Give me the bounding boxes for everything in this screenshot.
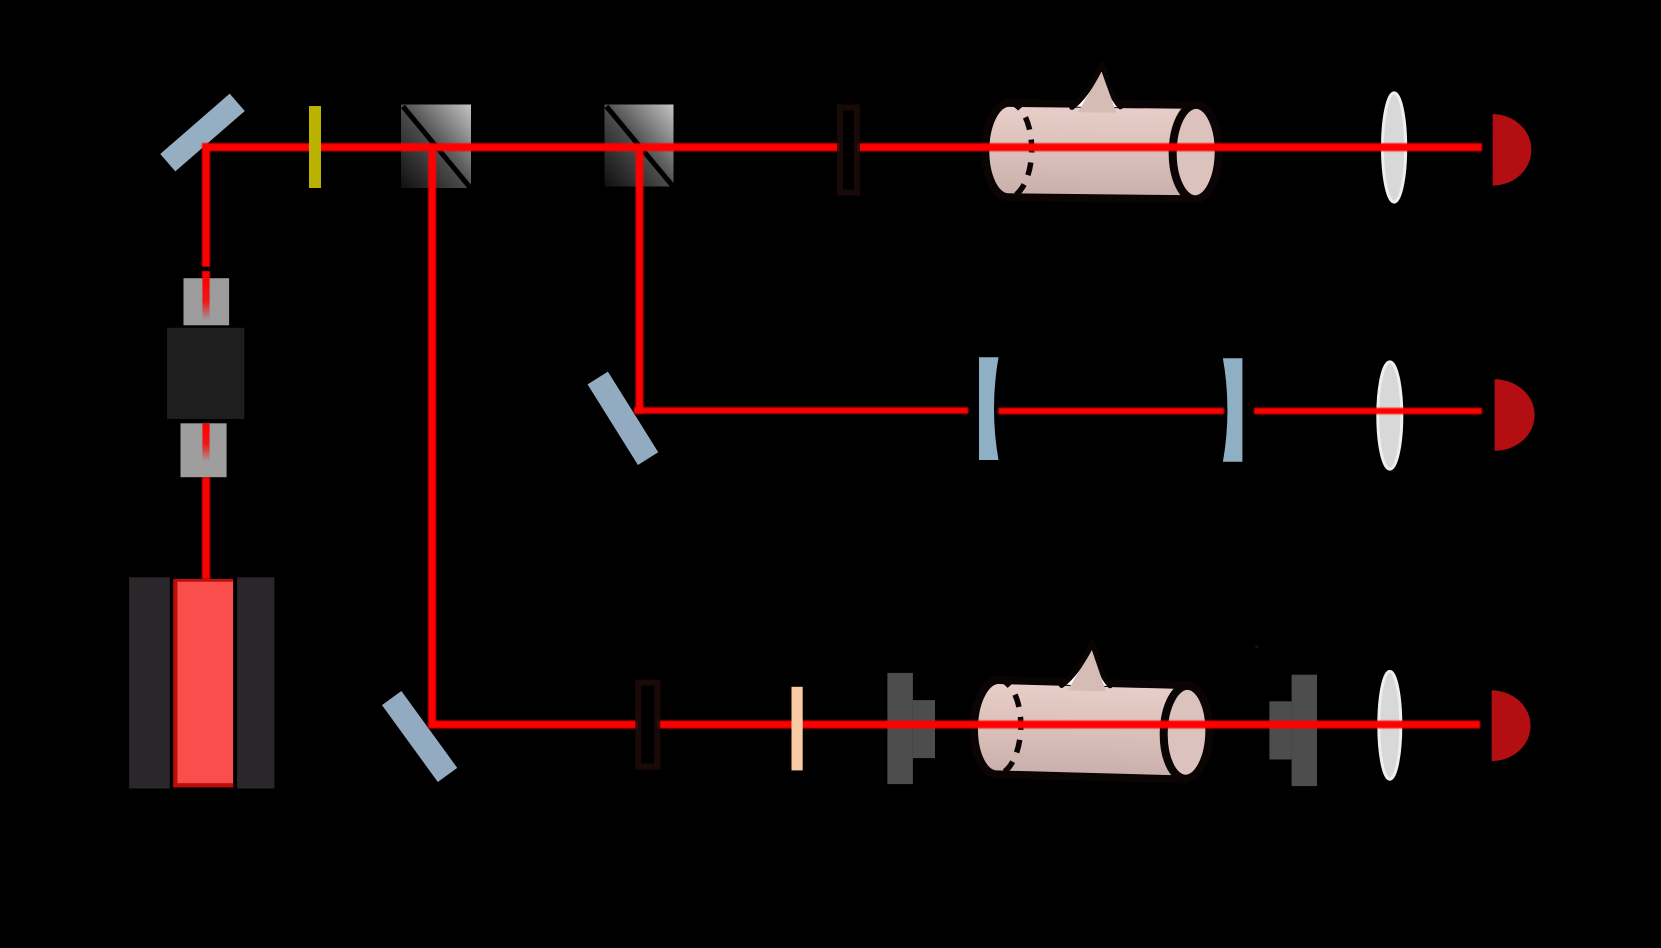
cavity mirror CM2 (right, concave left face) [1223,358,1243,462]
stray dark dot [1255,645,1258,648]
steering mirror M2 (middle row) [588,372,659,465]
lens L3 (bottom row) [1379,671,1401,779]
aperture / filter frame (top row, dark outline) [840,108,857,193]
laser housing right bar [237,577,274,788]
laser gain medium (red) [173,579,233,787]
beam: vertical from isolator to laser [202,477,210,579]
beam: middle horizontal intracavity segment [998,408,1224,414]
lens L2 (middle row) [1378,362,1402,469]
cell clamp right (bottom row) [1269,675,1317,786]
aperture / filter frame (bottom row, dark outline) [638,683,657,767]
half-wave plate (yellow) [309,106,321,188]
beam: vertical from BS1 down to M3 [428,147,436,728]
cell clamp left (bottom row) [887,673,935,784]
optical isolator input polarizer (top gray block) [184,278,230,325]
beam: vertical from M1 down to isolator [202,143,210,278]
laser housing left bar [129,577,170,788]
steering mirror M1 (top left) [160,94,245,172]
vapor cell (top row) [985,63,1220,200]
beam: vertical from BS2 down to M2 [636,147,644,414]
optical isolator body (black box) [167,328,244,419]
optical isolator output polarizer (bottom gray block) [181,423,227,477]
vapor cell (bottom row) [973,639,1212,780]
beam: middle horizontal segment to cavity [634,407,968,413]
photodetector PD3 (bottom row) [1492,690,1531,761]
photodetector PD2 (middle row) [1495,379,1535,451]
beam: middle horizontal segment after cavity [1254,408,1482,414]
cavity mirror CM1 (left, concave right face) [979,357,999,460]
beam: bottom horizontal [428,721,1480,729]
gap in beam above isolator [200,267,213,272]
beam splitter cube BS1 [401,105,471,189]
attenuator plate (peach, bottom row) [792,687,803,771]
lens L1 (top row) [1383,93,1406,202]
photodetector PD1 (top row) [1493,114,1532,186]
beam splitter cube BS2 [605,105,674,187]
steering mirror M3 (bottom row) [382,691,457,782]
beam: top horizontal [203,143,1483,151]
